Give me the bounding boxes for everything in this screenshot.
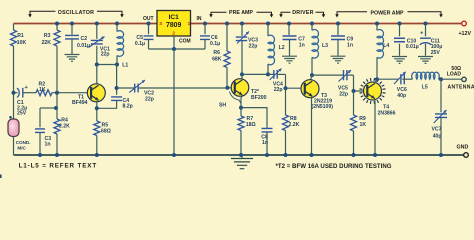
wire L1 down-leg to VC2 line [116, 65, 118, 95]
svg-text:PRE AMP: PRE AMP [229, 10, 253, 16]
svg-text:SH: SH [219, 103, 226, 109]
svg-text:0.1µ: 0.1µ [135, 41, 145, 47]
shield indication SH [219, 92, 241, 109]
condenser microphone MIC [8, 119, 31, 151]
inductor L2 [266, 22, 285, 75]
svg-text:0.1µ: 0.1µ [210, 41, 220, 47]
capacitor C4 [97, 97, 133, 109]
wire rail to R3 [56, 24, 58, 31]
svg-text:C2: C2 [81, 36, 88, 42]
svg-text:COM: COM [179, 38, 191, 44]
svg-text:22p: 22p [274, 87, 283, 93]
svg-text:COND.: COND. [16, 140, 31, 145]
wire R4 column to C3 tap [40, 107, 56, 109]
svg-text:2N3866: 2N3866 [378, 110, 396, 116]
svg-text:68Ω: 68Ω [101, 129, 111, 135]
svg-text:GND: GND [457, 144, 469, 150]
transistor T3 [301, 80, 333, 111]
node T2 base junction [225, 86, 229, 90]
node T3 base/R8 junction [284, 86, 288, 90]
svg-text:L2: L2 [279, 45, 285, 51]
capacitor C1 (electrolytic) [14, 85, 37, 117]
svg-text:1K: 1K [39, 87, 46, 93]
svg-text:10K: 10K [17, 40, 27, 46]
svg-text:1n: 1n [299, 43, 305, 49]
svg-text:OUT: OUT [143, 16, 154, 22]
svg-text:1n: 1n [262, 140, 268, 146]
svg-text:1: 1 [187, 21, 190, 27]
wire collector to T3 [311, 75, 313, 80]
variable capacitor VC4 [268, 69, 286, 94]
wire common bus C5-pin2-C6 [149, 48, 206, 50]
wire COM bus to ground rail [173, 49, 175, 155]
scan artifact bottom-left corner [0, 175, 2, 179]
wire R2 to base node [52, 92, 91, 94]
svg-text:2.2K: 2.2K [59, 124, 70, 130]
capacitor C9 with earth [331, 22, 354, 64]
svg-text:22p: 22p [339, 91, 348, 97]
svg-text:IC1: IC1 [169, 14, 180, 21]
+12V terminal [458, 21, 471, 37]
resistor R5 [94, 121, 111, 155]
variable capacitor VC5 [312, 70, 354, 97]
wire R3 to base node [56, 46, 58, 93]
node C3/ground [38, 153, 42, 157]
section bracket POWER AMP [335, 10, 443, 17]
capacitor C7 with earth [282, 22, 305, 64]
section bracket PRE AMP [209, 10, 273, 17]
svg-text:L1-L5 = REFER TEXT: L1-L5 = REFER TEXT [19, 162, 97, 169]
transistor T4 (with heatsink spokes) [360, 78, 396, 116]
variable capacitor VC1 [89, 22, 111, 65]
inductor L5 [412, 72, 441, 90]
svg-text:3: 3 [159, 21, 162, 27]
svg-text:1K: 1K [360, 122, 367, 128]
svg-text:L3: L3 [322, 43, 328, 49]
section bracket DRIVER [279, 10, 325, 17]
node emitter/C8 tap [239, 106, 243, 110]
svg-text:7809: 7809 [166, 22, 181, 29]
svg-text:18Ω: 18Ω [246, 122, 256, 128]
svg-text:40p: 40p [433, 134, 442, 140]
op-amp-style regulator IC1 7809 [157, 11, 191, 37]
wire collector up [241, 74, 243, 80]
inductor L3 [310, 22, 328, 76]
svg-text:IN: IN [197, 16, 202, 22]
resistor R8 [283, 88, 300, 155]
svg-text:25V: 25V [431, 50, 441, 56]
node T3 collector junction [310, 73, 314, 77]
resistor R6 [212, 22, 230, 88]
antenna terminal [447, 66, 474, 91]
svg-text:L5: L5 [422, 85, 428, 91]
chassis earth on ground rail [231, 155, 253, 169]
variable capacitor VC7 [432, 79, 448, 155]
node T4 collector/VC6 junction [375, 77, 379, 81]
node C3 tap junction [54, 106, 58, 110]
node R2/R3/R4/base junction [55, 91, 59, 95]
svg-text:C6: C6 [211, 35, 218, 41]
wire tank bottom to L2 [242, 73, 268, 75]
svg-text:0.01µ: 0.01µ [77, 43, 90, 49]
resistor R3 [42, 30, 60, 46]
wire VC4 to T3 base [286, 74, 306, 88]
variable capacitor VC3 [236, 22, 258, 75]
capacitor C5 [135, 22, 154, 50]
svg-text:R1: R1 [17, 33, 24, 39]
capacitor C11 (electrolytic) with earth [418, 22, 442, 64]
wire tank to T1 collector [96, 65, 98, 85]
svg-text:1n: 1n [347, 43, 353, 49]
svg-text:BF200: BF200 [251, 95, 267, 101]
capacitor C6 [200, 22, 220, 50]
wire base node to T2 [227, 87, 234, 89]
svg-text:22K: 22K [42, 40, 52, 46]
svg-text:8.2p: 8.2p [123, 103, 133, 109]
wire +12V rail down to R1 [13, 24, 15, 31]
transistor T2 [231, 79, 266, 101]
wire R1 to mic node [13, 46, 15, 119]
wire T2 emitter to R7 [241, 95, 242, 116]
capacitor C8 [241, 108, 273, 155]
inductor L4 [375, 22, 389, 80]
svg-text:+12V: +12V [458, 31, 471, 37]
svg-text:2: 2 [172, 31, 175, 37]
resistor R7 [238, 116, 256, 155]
svg-text:R3: R3 [44, 33, 51, 39]
node mic/C1/R1 junction [12, 91, 16, 95]
svg-text:22p: 22p [101, 51, 110, 57]
svg-text:*T2 = BFW 16A USED DURING TEST: *T2 = BFW 16A USED DURING TESTING [276, 163, 392, 170]
wire VC5 to T4 base [354, 75, 368, 91]
GND terminal [457, 144, 469, 157]
svg-text:L4: L4 [383, 43, 389, 49]
svg-text:L1: L1 [122, 63, 128, 69]
wire T1 emitter to R5 [96, 101, 98, 121]
wire T4 collector to L4 node [375, 79, 377, 83]
svg-text:0.01µ: 0.01µ [406, 44, 419, 50]
capacitor C3 [35, 108, 51, 155]
node C4/VC2 tap [115, 86, 119, 90]
variable capacitor VC2 [117, 80, 228, 103]
svg-text:(2N5109): (2N5109) [312, 104, 334, 110]
svg-text:R4: R4 [61, 117, 68, 123]
svg-text:22p: 22p [145, 97, 154, 103]
node T4 base/R9 junction [352, 89, 356, 93]
resistor R4 [54, 93, 70, 155]
resistor R1 [11, 30, 27, 46]
svg-text:LOAD: LOAD [447, 72, 462, 78]
node emitter/C4 junction [95, 106, 99, 110]
+12V supply rail (red) [14, 23, 462, 25]
wire T4 emitter to ground [374, 99, 376, 156]
resistor R2 [36, 82, 52, 96]
svg-text:25V: 25V [17, 111, 27, 117]
svg-text:C5: C5 [136, 35, 143, 41]
svg-text:POWER AMP: POWER AMP [370, 10, 404, 16]
node antenna/VC7 junction [439, 77, 443, 81]
svg-text:2.2K: 2.2K [289, 122, 300, 128]
svg-text:MIC: MIC [17, 146, 26, 151]
svg-text:1n: 1n [45, 142, 51, 148]
capacitor C2 with earth [65, 22, 91, 62]
wire tank bottom VC1-L1 [97, 64, 117, 66]
svg-text:R5: R5 [102, 122, 109, 128]
variable capacitor VC6 [377, 72, 413, 99]
svg-text:68K: 68K [212, 56, 222, 62]
resistor R9 [351, 91, 367, 155]
wire mic bottom to ground rail [13, 137, 15, 156]
svg-text:ANTENNA: ANTENNA [448, 84, 474, 90]
node mic terminal dot [9, 116, 12, 119]
node T2 collector/tank junction [240, 72, 244, 76]
section bracket OSCILLATOR [28, 10, 124, 18]
svg-text:22p: 22p [249, 43, 258, 49]
wire to antenna terminal [441, 78, 462, 80]
svg-text:BF494: BF494 [72, 100, 88, 106]
svg-text:VC7: VC7 [432, 127, 442, 133]
capacitor C10 with earth [392, 22, 419, 64]
svg-text:R6: R6 [213, 50, 220, 56]
wire T3 emitter to ground [311, 96, 314, 155]
ground rail [14, 154, 464, 156]
inductor L1 [115, 22, 128, 69]
svg-text:40p: 40p [397, 93, 406, 99]
svg-text:DRIVER: DRIVER [292, 10, 314, 16]
transistor T1 [72, 84, 105, 106]
wire IC1 pin2 down [173, 36, 175, 49]
svg-text:OSCILLATOR: OSCILLATOR [58, 10, 94, 16]
